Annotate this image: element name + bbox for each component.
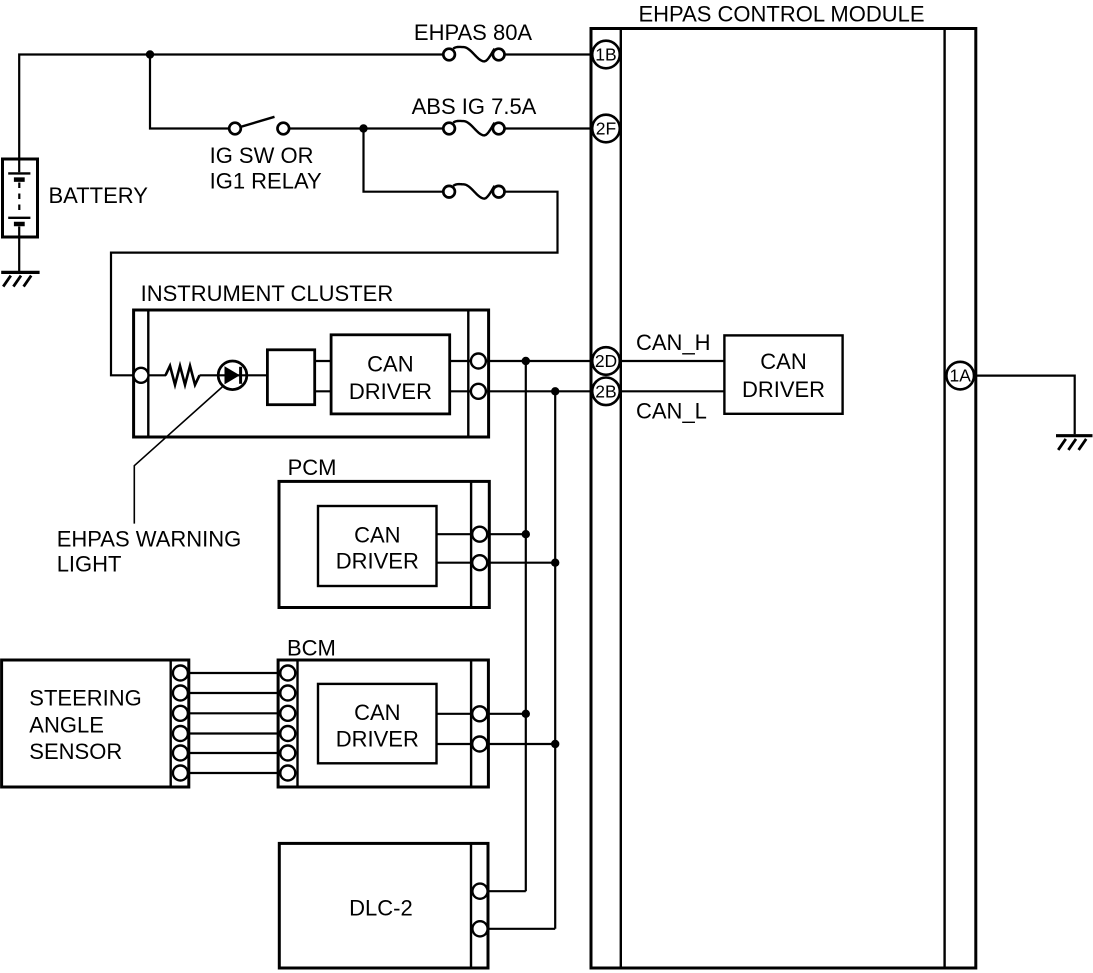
box PCM	[279, 481, 489, 607]
box BCM	[278, 660, 488, 787]
wire battery positive to EHPAS fuse row	[19, 55, 443, 173]
terminal DLC-2 CAN_H	[472, 884, 487, 899]
terminal PCM CAN_H	[472, 527, 487, 542]
svg-text:STEERING: STEERING	[29, 686, 141, 711]
box CAN DRIVER (BCM)	[318, 684, 437, 763]
wire CAN_L bus vertical	[554, 391, 556, 929]
svg-text:2F: 2F	[596, 119, 616, 139]
wire switch to ABS fuse	[289, 127, 444, 129]
terminals steering sensor (6)	[173, 666, 188, 781]
box EHPAS control module	[591, 29, 976, 969]
svg-text:SENSOR: SENSOR	[29, 739, 122, 764]
battery BATTERY	[3, 159, 38, 237]
svg-text:CAN_L: CAN_L	[636, 399, 707, 424]
svg-text:EHPAS 80A: EHPAS 80A	[414, 20, 533, 45]
fuse EHPAS 80A	[443, 47, 504, 61]
wire CAN_H bus vertical	[525, 361, 527, 891]
svg-text:BCM: BCM	[287, 636, 336, 661]
fuse meter fuse (unlabeled)	[443, 184, 504, 198]
wire module pin 2D to CAN driver	[620, 360, 724, 362]
wire junction J2 down to fuse 3	[364, 129, 444, 192]
node junction CAN_L bus top	[551, 387, 559, 395]
terminal BCM CAN_L	[472, 737, 487, 752]
svg-text:1A: 1A	[949, 366, 971, 386]
svg-text:IG SW OR: IG SW OR	[210, 143, 314, 168]
svg-text:DRIVER: DRIVER	[349, 379, 432, 404]
svg-text:DLC-2: DLC-2	[349, 896, 413, 921]
wire cluster input to LED and meter box	[149, 374, 268, 376]
wire DLC-2 CAN_H to bus	[488, 890, 526, 892]
svg-text:INSTRUMENT CLUSTER: INSTRUMENT CLUSTER	[141, 281, 394, 306]
LED EHPAS warning light	[218, 361, 247, 390]
svg-text:2B: 2B	[595, 381, 616, 401]
wire meter box to CAN driver (cluster)	[315, 361, 331, 391]
terminal cluster left terminal	[134, 368, 149, 383]
pin 1B	[592, 41, 620, 69]
box CAN DRIVER (instrument cluster)	[331, 335, 450, 414]
svg-text:EHPAS WARNING: EHPAS WARNING	[57, 527, 242, 552]
svg-text:BATTERY: BATTERY	[49, 183, 149, 208]
svg-text:CAN: CAN	[354, 522, 400, 547]
wire module pin 1A to ground	[976, 376, 1075, 435]
node junction J2 fuse3 branch	[359, 124, 367, 132]
node junction BCM CAN_H on bus	[522, 710, 530, 718]
svg-text:IG1 RELAY: IG1 RELAY	[210, 169, 322, 194]
resistor cluster series resistor	[166, 366, 200, 385]
wire BCM CAN_H to bus	[437, 713, 526, 715]
ground battery ground	[1, 272, 39, 286]
wire battery negative to ground	[18, 227, 20, 272]
pin 2D	[592, 347, 620, 375]
wire PCM CAN_H to bus	[437, 533, 526, 535]
pin 1A	[946, 362, 974, 390]
connector strip line DLC-2	[470, 843, 472, 968]
box cluster meter box	[267, 350, 314, 405]
wire ABS fuse to module pin 2F	[504, 127, 592, 129]
svg-text:EHPAS CONTROL MODULE: EHPAS CONTROL MODULE	[638, 1, 924, 26]
box CAN DRIVER (PCM)	[318, 506, 437, 586]
wires steering sensor to BCM (6 lines)	[189, 673, 278, 773]
wire EHPAS fuse to module pin 1B	[504, 53, 592, 55]
svg-text:DRIVER: DRIVER	[336, 548, 419, 573]
fuse ABS IG 7.5A	[443, 121, 504, 135]
terminal PCM CAN_L	[472, 555, 487, 570]
svg-text:DRIVER: DRIVER	[336, 726, 419, 751]
box STEERING ANGLE SENSOR	[2, 660, 189, 787]
connector strip line steering angle sensor	[169, 660, 171, 787]
node junction J1 battery/ignition branch	[146, 50, 154, 58]
wire BCM CAN_L to bus	[437, 743, 556, 745]
terminal BCM CAN_H	[472, 706, 487, 721]
terminal cluster right terminal CAN_L	[471, 384, 486, 399]
terminals BCM left (6)	[280, 666, 295, 781]
box CAN DRIVER (module)	[724, 335, 842, 413]
wire module pin 2B to CAN driver	[620, 390, 724, 392]
svg-text:LIGHT: LIGHT	[57, 551, 122, 576]
svg-text:CAN: CAN	[354, 700, 400, 725]
svg-text:DRIVER: DRIVER	[742, 377, 825, 402]
box instrument cluster	[134, 310, 489, 437]
node junction PCM CAN_L on bus	[551, 559, 559, 567]
node junction CAN_H bus top	[522, 357, 530, 365]
pin 2F	[592, 115, 620, 143]
wire cluster CAN_L to module pin 2B	[450, 390, 593, 392]
svg-text:CAN: CAN	[367, 352, 413, 377]
switch IG SW OR IG1 RELAY	[229, 117, 289, 135]
node junction BCM CAN_L on bus	[551, 740, 559, 748]
svg-text:PCM: PCM	[288, 455, 337, 480]
pointer line EHPAS warning light callout	[134, 385, 224, 523]
box DLC-2	[279, 843, 488, 968]
wire PCM CAN_L to bus	[437, 562, 556, 564]
wire DLC-2 CAN_L to bus	[488, 928, 555, 930]
terminal cluster right terminal CAN_H	[471, 354, 486, 369]
svg-text:CAN: CAN	[760, 349, 806, 374]
node junction PCM CAN_H on bus	[522, 530, 530, 538]
connector strip lines instrument cluster	[148, 310, 468, 437]
svg-text:2D: 2D	[595, 351, 617, 371]
connector strip lines BCM	[298, 660, 472, 787]
connector strip lines EHPAS control module	[621, 29, 945, 969]
connector strip line PCM	[470, 481, 472, 607]
svg-text:CAN_H: CAN_H	[636, 330, 711, 355]
wire cluster CAN_H to module pin 2D	[450, 360, 593, 362]
svg-text:ABS IG 7.5A: ABS IG 7.5A	[412, 94, 537, 119]
wire fuse 3 to instrument cluster	[111, 192, 558, 376]
ground module ground	[1056, 436, 1093, 450]
terminal DLC-2 CAN_L	[472, 921, 487, 936]
wire junction J1 down to ignition switch	[150, 55, 229, 129]
svg-text:ANGLE: ANGLE	[29, 713, 104, 738]
pin 2B	[592, 378, 620, 406]
svg-text:1B: 1B	[595, 45, 616, 65]
